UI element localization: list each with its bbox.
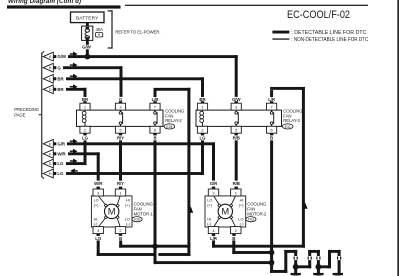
svg-text:W/R: W/R <box>94 181 103 186</box>
svg-text:LG: LG <box>95 236 102 241</box>
relay-3 pin 3 <box>235 101 238 103</box>
wire relay-3 pin 5 R/B to motor-2 pin 1 <box>235 140 238 180</box>
motor-2 pin 2 <box>231 227 241 234</box>
svg-text:LG: LG <box>82 136 89 141</box>
battery BATTERY <box>71 12 105 23</box>
arrow right (row A) <box>70 52 78 57</box>
wire drop G to relay-2 pin 3 <box>120 66 123 97</box>
wire H3 arch <box>308 250 320 253</box>
svg-text:6: 6 <box>271 128 273 133</box>
wire row D: BR <box>66 88 87 91</box>
connector triangle E <box>43 139 56 148</box>
motor-1 pin 1 <box>119 187 122 189</box>
relay U1 COOLING FAN RELAY-2 <box>77 97 186 141</box>
wire relay-2 pin 2 LG drop <box>84 140 87 165</box>
svg-text:PAGE: PAGE <box>14 113 25 118</box>
relay-3 coil <box>202 110 204 126</box>
ground symbol 1 <box>291 273 301 276</box>
svg-text:3: 3 <box>119 105 121 110</box>
wire chain top H1 <box>284 250 297 253</box>
arrow right (row C) <box>70 74 78 79</box>
svg-text:MOTOR-1: MOTOR-1 <box>134 211 154 216</box>
svg-text:BR: BR <box>199 97 206 102</box>
ground chain leg 4 <box>328 250 331 268</box>
relay U2 COOLING FAN RELAY-3 <box>196 97 303 141</box>
svg-text:2: 2 <box>119 228 121 233</box>
motor-1 connector oval F26 <box>132 217 142 222</box>
svg-text:G/R: G/R <box>210 181 218 186</box>
wire row 1 (B splice bus) <box>119 245 190 248</box>
motor-2 body <box>205 196 246 227</box>
wire fuse to bus (G/W) <box>86 40 89 45</box>
wire drop BR to relay-3 pin 1 <box>201 77 204 97</box>
relay-3 contact 7-6 <box>271 110 273 126</box>
svg-text:G/W: G/W <box>232 97 241 102</box>
inline connector on leg 3 <box>316 256 321 260</box>
svg-text:M: M <box>221 206 229 217</box>
svg-text:5: 5 <box>119 128 121 133</box>
svg-text:LG: LG <box>57 171 64 176</box>
relay-2 pin 3 <box>119 101 122 103</box>
svg-text:R/Y: R/Y <box>117 181 124 186</box>
svg-text:1: 1 <box>84 105 86 110</box>
relay-3 connector oval E31 <box>282 124 293 129</box>
svg-text:F26: F26 <box>134 218 140 222</box>
inline connector on leg 2 <box>307 256 312 260</box>
connector triangle D <box>43 85 56 94</box>
ground chain leg 2 <box>308 250 311 268</box>
svg-text:M: M <box>108 206 116 217</box>
motor M1 COOLING FAN MOTOR-1 <box>91 181 153 241</box>
svg-text:C: C <box>49 77 52 81</box>
svg-text:: DETECTABLE LINE FOR DTC: : DETECTABLE LINE FOR DTC <box>291 30 366 36</box>
svg-text:BATTERY: BATTERY <box>76 16 99 22</box>
connector triangle B <box>43 63 56 72</box>
connector triangle H <box>43 169 56 178</box>
svg-text:F43: F43 <box>248 218 254 222</box>
svg-text:5: 5 <box>235 128 237 133</box>
svg-text:R/B: R/B <box>233 136 240 141</box>
arrow right (row G) <box>70 159 78 164</box>
relay-2 pin 5 <box>115 126 125 133</box>
wire L/B n-shape from relay-2 pin 7 <box>154 88 191 256</box>
connector triangle G <box>43 159 56 168</box>
junction dot on G/W bus <box>85 54 91 60</box>
svg-text:L/R: L/R <box>210 236 218 241</box>
svg-text:B: B <box>270 136 273 141</box>
svg-text:(+): (+) <box>125 202 131 207</box>
wire relay-2 pin 5 R/Y to motor-1 pin 1 <box>119 140 122 180</box>
wire row 2a (LG to B splice) <box>97 253 157 256</box>
wire H2 (dot1 to leg2) <box>294 265 311 268</box>
refer bracket <box>108 10 113 48</box>
wire H6 arch <box>328 250 341 253</box>
relay-3 pin 2 <box>197 126 207 133</box>
wire row B: G <box>63 66 123 69</box>
wire drop BR to relay-2 pin 1 <box>84 88 87 97</box>
wire H5 (dot2 to leg4) <box>317 265 331 268</box>
svg-text:3: 3 <box>212 190 214 195</box>
inline connector on leg 1 <box>293 256 298 260</box>
svg-text:BR: BR <box>82 97 89 102</box>
svg-text:3: 3 <box>235 105 237 110</box>
wire row F: W/R <box>68 152 100 155</box>
motor-2 pin 3 <box>212 187 215 189</box>
junction dot ground leg 3 <box>316 264 322 270</box>
svg-text:W/R: W/R <box>57 151 66 156</box>
fuse tag H <box>95 32 102 37</box>
svg-text:(+): (+) <box>207 202 213 207</box>
relay-2 connector oval E28 <box>164 124 175 129</box>
svg-text:E28: E28 <box>166 125 172 129</box>
arrow right (row E) <box>70 139 78 144</box>
svg-text:3: 3 <box>97 190 99 195</box>
arrow left (row H) <box>70 168 78 173</box>
svg-text:H: H <box>49 172 52 176</box>
svg-text:(+): (+) <box>94 202 100 207</box>
arrow right (row F) <box>70 149 78 154</box>
relay-3 pin 5 <box>231 126 241 133</box>
wire battery to fuse <box>86 23 89 27</box>
heading thick underline <box>7 5 121 8</box>
motor M2 COOLING FAN MOTOR-2 <box>205 181 267 241</box>
svg-text:1: 1 <box>201 105 203 110</box>
arrow right (row D) <box>70 84 78 89</box>
motor-1 internal diagonals <box>99 197 120 227</box>
ground leg 3 <box>317 250 320 273</box>
motor-1 pin 3 <box>97 187 100 189</box>
wire L/R n-shape from relay-3 pin 7 <box>270 87 305 248</box>
motor-2 brush tabs <box>218 204 223 209</box>
wire drop W/R to motor-1 pin 3 <box>97 152 100 180</box>
relay-3 pin 1 <box>201 101 204 103</box>
svg-text:40A: 40A <box>96 27 104 32</box>
svg-text:B: B <box>153 136 156 141</box>
relay-2 pin 7 <box>153 101 156 103</box>
svg-text:L/R: L/R <box>268 97 276 102</box>
ground leg 5 <box>338 250 341 273</box>
svg-text:REFER TO EL-POWER.: REFER TO EL-POWER. <box>115 29 160 34</box>
motor-1 M circle <box>105 204 119 218</box>
relay-3 body <box>196 110 282 126</box>
connector triangle A <box>43 52 56 61</box>
svg-text:2: 2 <box>84 128 86 133</box>
svg-text:2: 2 <box>235 228 237 233</box>
svg-text:BR: BR <box>57 76 64 81</box>
svg-text:L/B: L/B <box>152 97 159 102</box>
connector triangle C <box>43 74 56 83</box>
preceding page bracket <box>39 51 44 179</box>
wire drop G/W to relay-3 pin 3 <box>235 55 238 97</box>
svg-text:B: B <box>232 236 235 241</box>
svg-text:Wiring Diagram (Cont'd): Wiring Diagram (Cont'd) <box>8 0 81 5</box>
svg-text:RELAY-3: RELAY-3 <box>283 118 300 123</box>
svg-text:1: 1 <box>235 190 237 195</box>
fuse 40A <box>82 26 104 40</box>
up arrow on L/B vertical <box>188 207 193 213</box>
svg-text:G/W: G/W <box>82 45 91 50</box>
wire V2 bottom elbow <box>270 270 287 273</box>
junction dot B / motor-1 ground <box>152 243 158 249</box>
relay-3 pin 6 <box>267 126 277 133</box>
ground symbol 3 <box>333 273 343 276</box>
relay-2 contact 7-6 <box>154 110 156 126</box>
wire row C: BR <box>66 77 204 80</box>
svg-text:D: D <box>49 88 52 92</box>
motor-2 connector oval F43 <box>246 217 256 222</box>
svg-text:RELAY-2: RELAY-2 <box>165 118 182 123</box>
svg-text:7: 7 <box>154 105 156 110</box>
svg-text:G: G <box>49 162 52 166</box>
svg-text:: NON-DETECTABLE LINE FOR DTC: : NON-DETECTABLE LINE FOR DTC <box>291 37 368 43</box>
motor-1 brush tabs <box>104 204 109 209</box>
motor-2 M circle <box>218 204 232 218</box>
connector triangle F <box>43 149 56 158</box>
relay-3 contact 3-5 <box>235 110 237 126</box>
wire L/R bottom run to right vertical <box>212 245 305 248</box>
svg-text:1: 1 <box>119 190 121 195</box>
svg-text:E31: E31 <box>285 125 291 129</box>
svg-text:2: 2 <box>201 128 203 133</box>
svg-text:6: 6 <box>154 128 156 133</box>
wire row E: G/R <box>67 142 215 145</box>
relay-2 pin 1 <box>83 101 86 103</box>
wire row H: LG <box>66 172 204 175</box>
svg-text:PRECEDING: PRECEDING <box>14 107 39 112</box>
wire row 3 (ground bus to right) <box>154 261 274 264</box>
relay-2 pin 6 <box>150 126 160 133</box>
wire motor-2 pin 2 B down <box>232 240 235 254</box>
wire relay-3 pin 6 B vertical (to ground chain) <box>270 140 273 273</box>
wire riser to ground chain <box>284 250 287 273</box>
inline connector on leg 5 <box>337 256 342 260</box>
relay-3 pin 7 <box>270 101 273 103</box>
relay-2 pin 2 <box>80 126 90 133</box>
svg-text:BR: BR <box>57 87 64 92</box>
svg-text:R/B: R/B <box>233 181 240 186</box>
relay-2 contact 3-5 <box>120 110 122 126</box>
motor-1 pin 4 <box>93 227 103 234</box>
wire motor-2 pin 4 L/R down <box>212 240 215 247</box>
motor-2 pin 4 <box>208 227 218 234</box>
svg-text:MOTOR-2: MOTOR-2 <box>247 211 267 216</box>
wire B run to V2 dot <box>232 251 273 254</box>
wire motor-1 pin 2 B down <box>119 240 122 247</box>
legend: detectable line bar <box>272 31 289 34</box>
svg-text:G/R: G/R <box>57 141 65 146</box>
svg-text:R/Y: R/Y <box>117 136 124 141</box>
wire row A: G/W bus <box>68 55 238 58</box>
wire motor-1 pin 4 LG down <box>97 240 100 256</box>
wire row 2b (to L/B vertical) <box>158 253 190 256</box>
relay-2 body <box>77 110 164 126</box>
motor-1 pin 2 <box>115 227 125 234</box>
thin top frame line <box>125 5 368 6</box>
arrow right (row B) <box>70 63 78 68</box>
wire relay-2 pin 6 B vertical (to ground bus) <box>154 140 157 264</box>
wire row G: LG <box>66 162 87 165</box>
relay-2 coil <box>84 110 86 126</box>
svg-text:7: 7 <box>271 105 273 110</box>
motor-1 body <box>91 196 132 227</box>
legend: non-detectable line bar <box>272 38 289 39</box>
svg-text:G/W: G/W <box>57 54 66 59</box>
svg-text:EC-COOL/F-02: EC-COOL/F-02 <box>287 9 350 21</box>
ground symbol 2 <box>313 273 323 276</box>
junction dot ground leg 1 <box>293 264 299 270</box>
wire drop G/R to motor-2 pin 3 <box>212 142 215 180</box>
motor-2 pin 1 <box>235 187 238 189</box>
junction dot B / ground bus <box>269 260 275 266</box>
wire relay-3 pin 2 LG drop <box>201 140 204 175</box>
ground leg 1 <box>294 250 297 273</box>
motor-2 internal diagonals <box>214 197 235 227</box>
right page border <box>397 0 399 276</box>
junction dot B / motor-2 ground <box>269 250 275 256</box>
svg-text:(+): (+) <box>239 202 245 207</box>
svg-text:LG: LG <box>200 136 207 141</box>
svg-text:LG: LG <box>57 161 64 166</box>
up arrow on L/R vertical <box>303 203 308 209</box>
svg-text:B: B <box>119 236 122 241</box>
